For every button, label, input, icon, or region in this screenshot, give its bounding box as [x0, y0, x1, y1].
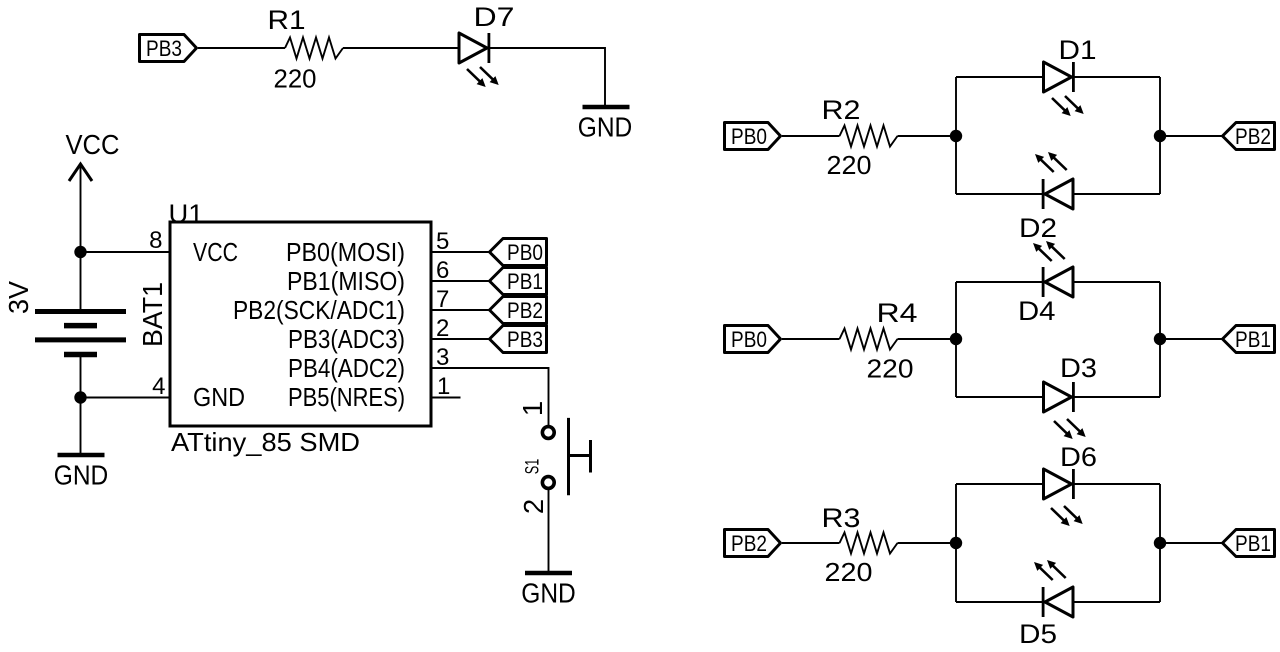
- wire: [898, 135, 957, 137]
- junction: [950, 333, 962, 345]
- svg-text:7: 7: [436, 286, 449, 313]
- svg-text:PB1: PB1: [1235, 327, 1271, 352]
- wire: [782, 542, 840, 544]
- wire pin 5: [431, 251, 490, 253]
- wire pin 1 stub: [431, 397, 461, 399]
- svg-text:PB1: PB1: [507, 269, 543, 294]
- svg-text:PB0: PB0: [507, 240, 543, 265]
- svg-text:PB3: PB3: [146, 36, 182, 61]
- net label PB0: [725, 326, 781, 353]
- wire: [898, 338, 957, 340]
- junction: [1154, 333, 1166, 345]
- wire: [548, 488, 550, 571]
- svg-text:5: 5: [436, 228, 449, 255]
- svg-text:2: 2: [518, 499, 549, 514]
- resistor R4: [840, 298, 918, 384]
- svg-text:R1: R1: [268, 5, 306, 35]
- wire: [489, 48, 605, 105]
- svg-text:PB0(MOSI): PB0(MOSI): [286, 237, 405, 267]
- svg-text:4: 4: [152, 373, 165, 400]
- wire: [81, 397, 171, 399]
- svg-text:PB2(SCK/ADC1): PB2(SCK/ADC1): [233, 295, 405, 325]
- LED D3: [1044, 353, 1098, 439]
- svg-text:PB0: PB0: [731, 124, 767, 149]
- svg-text:GND: GND: [193, 382, 245, 412]
- junction: [74, 246, 86, 258]
- wire: [782, 338, 840, 340]
- svg-text:R2: R2: [822, 95, 861, 125]
- svg-text:PB2: PB2: [1235, 124, 1271, 149]
- svg-text:PB5(NRES): PB5(NRES): [288, 382, 405, 412]
- svg-text:D5: D5: [1019, 619, 1057, 649]
- wire: [956, 281, 1160, 283]
- net label PB2: [1223, 123, 1275, 150]
- svg-text:220: 220: [827, 150, 872, 180]
- junction: [1154, 537, 1166, 549]
- svg-text:3V: 3V: [3, 280, 34, 314]
- wire: [898, 542, 957, 544]
- wire: [956, 483, 1160, 485]
- wire: [955, 282, 957, 397]
- wire: [955, 484, 957, 602]
- net label PB1: [1223, 326, 1275, 353]
- svg-text:GND: GND: [54, 460, 109, 491]
- net label PB2: [490, 297, 547, 324]
- svg-text:VCC: VCC: [193, 237, 238, 267]
- svg-text:1: 1: [437, 373, 450, 400]
- wire: [1159, 77, 1161, 194]
- svg-text:D4: D4: [1018, 296, 1056, 326]
- svg-text:D7: D7: [474, 2, 515, 32]
- wire: [1160, 542, 1222, 544]
- wire: [955, 77, 957, 194]
- wire: [343, 47, 459, 49]
- svg-text:D6: D6: [1060, 442, 1097, 472]
- power flag VCC: [66, 129, 120, 252]
- wire pin 6: [431, 280, 490, 282]
- svg-text:ATtiny_85 SMD: ATtiny_85 SMD: [171, 427, 360, 457]
- svg-text:PB2: PB2: [507, 298, 543, 323]
- svg-text:GND: GND: [521, 578, 576, 609]
- LED D6: [1044, 442, 1098, 526]
- wire: [956, 193, 1160, 195]
- wire pin 3: [431, 368, 549, 425]
- LED D4: [1018, 241, 1073, 326]
- wire: [956, 76, 1160, 78]
- wire: [81, 251, 171, 253]
- svg-text:PB0: PB0: [731, 327, 767, 352]
- svg-text:D1: D1: [1059, 35, 1097, 65]
- svg-text:D2: D2: [1019, 213, 1057, 243]
- ground: [54, 455, 109, 491]
- LED D7: [459, 2, 515, 87]
- ground: [578, 107, 633, 143]
- svg-text:R3: R3: [822, 503, 861, 533]
- junction: [1154, 130, 1166, 142]
- LED D5: [1019, 560, 1073, 649]
- svg-text:6: 6: [436, 257, 449, 284]
- junction: [74, 391, 86, 403]
- svg-text:PB3: PB3: [507, 327, 543, 352]
- svg-text:PB2: PB2: [731, 531, 767, 556]
- svg-text:GND: GND: [578, 112, 633, 143]
- svg-text:2: 2: [436, 315, 449, 342]
- ground: [521, 573, 576, 609]
- svg-text:1: 1: [517, 401, 548, 416]
- wire: [1159, 484, 1161, 602]
- wire: [198, 47, 285, 49]
- svg-text:220: 220: [867, 354, 914, 384]
- svg-text:VCC: VCC: [66, 129, 120, 160]
- wire: [782, 135, 840, 137]
- IC U1 ATtiny_85 SMD: [149, 201, 450, 458]
- wire: [80, 398, 82, 454]
- LED D1: [1044, 35, 1097, 116]
- wire: [956, 396, 1160, 398]
- junction: [950, 537, 962, 549]
- svg-text:PB4(ADC2): PB4(ADC2): [288, 353, 405, 383]
- wire: [1159, 282, 1161, 397]
- wire: [1160, 338, 1222, 340]
- wire: [956, 601, 1160, 603]
- svg-text:S1: S1: [523, 459, 544, 475]
- svg-text:8: 8: [149, 227, 162, 254]
- battery BAT1: [3, 252, 168, 398]
- switch S1: [517, 401, 591, 514]
- svg-text:U1: U1: [169, 201, 204, 229]
- svg-text:D3: D3: [1060, 353, 1097, 383]
- net label PB0: [725, 123, 781, 150]
- junction: [950, 130, 962, 142]
- net label PB0: [490, 239, 547, 266]
- svg-text:PB3(ADC3): PB3(ADC3): [288, 324, 405, 354]
- net label PB1: [490, 268, 547, 295]
- svg-text:PB1: PB1: [1235, 531, 1271, 556]
- svg-text:PB1(MISO): PB1(MISO): [287, 266, 405, 296]
- svg-text:220: 220: [274, 64, 317, 94]
- net label PB3: [140, 35, 197, 62]
- net label PB1: [1223, 530, 1275, 557]
- svg-text:3: 3: [436, 344, 449, 371]
- net label PB3: [490, 326, 547, 353]
- wire: [1160, 135, 1222, 137]
- svg-text:R4: R4: [877, 298, 918, 328]
- LED D2: [1019, 152, 1073, 243]
- resistor R1: [268, 5, 344, 94]
- net label PB2: [725, 530, 781, 557]
- svg-text:220: 220: [825, 557, 873, 587]
- svg-text:BAT1: BAT1: [137, 282, 168, 347]
- wire pin 2: [431, 338, 490, 340]
- resistor R2: [822, 95, 898, 180]
- wire pin 7: [431, 309, 490, 311]
- resistor R3: [822, 503, 898, 587]
